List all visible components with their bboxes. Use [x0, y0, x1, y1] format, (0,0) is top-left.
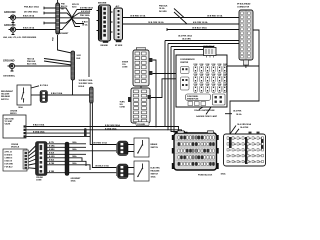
svg-text:I/P BULKHEAD: I/P BULKHEAD — [237, 3, 251, 6]
grid B top stubs — [249, 132, 260, 135]
fuse row 2 dots — [195, 77, 225, 82]
splice output labels — [80, 7, 94, 27]
svg-text:FUSE: FUSE — [223, 84, 227, 86]
connector C100 ip side — [114, 8, 123, 40]
wire SC1 to fuse block — [152, 73, 177, 75]
harness wire labels — [49, 141, 77, 173]
svg-text:18 B ORN 18 GA: 18 B ORN 18 GA — [148, 21, 164, 24]
svg-text:FUSE PANEL: FUSE PANEL — [187, 95, 199, 98]
wire PNK to splice — [44, 7, 72, 17]
fuse block relay on top — [204, 48, 217, 58]
svg-text:18GA: 18GA — [72, 162, 77, 165]
wire harness W5 — [47, 158, 82, 161]
svg-text:FUSE: FUSE — [194, 64, 198, 66]
svg-text:HORN RELAY: HORN RELAY — [203, 45, 216, 48]
svg-text:18 B BLK 18 GA: 18 B BLK 18 GA — [95, 165, 109, 168]
stoplamp switch box — [134, 138, 149, 157]
svg-text:SWITCH: SWITCH — [151, 174, 159, 176]
circuit breaker 2 — [181, 77, 190, 90]
svg-text:C5: C5 — [249, 150, 251, 152]
wire switch to connector — [31, 94, 40, 96]
wire servo B — [28, 129, 169, 131]
svg-text:F DK BLU: F DK BLU — [5, 166, 14, 168]
svg-text:B GRA 18GA: B GRA 18GA — [33, 130, 45, 133]
svg-text:FUSE: FUSE — [212, 84, 216, 86]
connector C100 engine label — [98, 2, 108, 46]
wire label C3 — [95, 165, 109, 168]
svg-text:GROUND: GROUND — [4, 23, 16, 27]
ground G104 label — [3, 59, 15, 63]
cruise servo label — [10, 111, 18, 116]
fuse row 1 dots — [195, 67, 225, 72]
harness grommet bar — [65, 142, 69, 176]
svg-text:C3: C3 — [239, 150, 241, 152]
steering column upper left labels — [122, 61, 129, 68]
wire harness W6 — [47, 161, 86, 166]
svg-text:CONN: CONN — [120, 107, 126, 109]
svg-text:4 B RED 18GA: 4 B RED 18GA — [80, 7, 94, 10]
svg-text:B5: B5 — [249, 144, 251, 146]
wire SC1 tab down — [152, 60, 156, 127]
svg-text:E DK GRN: E DK GRN — [5, 163, 14, 165]
grid B pins — [227, 137, 264, 163]
svg-text:B GRA: B GRA — [49, 145, 55, 148]
svg-text:C6: C6 — [254, 150, 256, 152]
svg-text:GAUGES FUSE 10 AMP: GAUGES FUSE 10 AMP — [196, 115, 218, 118]
grid B pin text specks — [229, 137, 261, 164]
wire DK GRN to splice — [44, 12, 72, 18]
wire splice pack D down V2a — [90, 103, 117, 145]
svg-text:18 A PNK 18GA: 18 A PNK 18GA — [178, 35, 192, 38]
svg-text:E6: E6 — [254, 162, 256, 164]
fuse row 3 labels — [194, 84, 228, 86]
wire servo A — [28, 126, 166, 128]
wire harness W8 — [47, 172, 117, 174]
svg-text:CONNECTOR: CONNECTOR — [237, 6, 250, 8]
svg-text:VAC HOSE: VAC HOSE — [5, 117, 15, 120]
svg-text:S210: S210 — [72, 6, 76, 8]
svg-text:E1: E1 — [229, 162, 231, 164]
wires module to connector fan — [29, 146, 37, 169]
electrical release switch labels — [151, 168, 161, 179]
svg-text:D1: D1 — [229, 156, 231, 158]
svg-text:RELEASE: RELEASE — [151, 170, 161, 173]
bulkhead grid connector B — [224, 134, 266, 166]
svg-text:REDUNDANT: REDUNDANT — [1, 90, 14, 93]
connector C157 — [40, 91, 48, 103]
splice S210 — [71, 10, 92, 27]
svg-text:E3: E3 — [239, 162, 241, 164]
svg-text:D6: D6 — [254, 156, 256, 158]
redundant vacuum release switch label — [1, 90, 14, 101]
svg-text:PNK BLK: PNK BLK — [159, 5, 168, 7]
svg-text:B BRN: B BRN — [49, 149, 55, 151]
cruise servo box — [3, 115, 28, 138]
svg-text:4 B SOLID: 4 B SOLID — [81, 10, 91, 13]
grid B bottom label — [221, 172, 227, 175]
svg-text:FUSE: FUSE — [200, 64, 204, 66]
wire splice pack D down V2b — [92, 103, 117, 168]
svg-text:18 A ORN 18GA: 18 A ORN 18GA — [237, 123, 252, 126]
svg-text:18 B RED 18GA: 18 B RED 18GA — [79, 82, 94, 85]
wire harness W2 — [47, 146, 86, 148]
ground G117 label — [4, 10, 16, 14]
svg-text:DK GRN 18GA: DK GRN 18GA — [24, 11, 38, 14]
ground G104 note — [3, 76, 16, 78]
svg-text:FUSE: FUSE — [218, 84, 222, 86]
svg-text:VALVE: VALVE — [5, 123, 12, 126]
svg-text:B BLK: B BLK — [82, 22, 88, 24]
svg-text:18 B BLK 18GA: 18 B BLK 18GA — [79, 79, 94, 82]
svg-text:B1: B1 — [229, 144, 231, 146]
svg-text:B BLK 18GA: B BLK 18GA — [33, 124, 45, 127]
svg-text:A/C: A/C — [116, 5, 120, 8]
ip bulkhead connector label — [237, 3, 251, 9]
grommet label — [58, 33, 70, 35]
svg-text:D7: D7 — [259, 156, 261, 158]
circuit breaker 1 — [181, 67, 190, 74]
wire servo C — [28, 132, 91, 134]
connector C100 ip bottom cap — [116, 40, 122, 42]
svg-text:B GRA 18GA: B GRA 18GA — [105, 127, 117, 130]
svg-text:ENGINE: ENGINE — [101, 45, 109, 47]
stoplamp switch labels — [151, 143, 159, 149]
fuse row 1 — [194, 66, 227, 73]
wire fuse block to loop — [227, 65, 259, 67]
svg-text:18GA: 18GA — [72, 141, 77, 144]
svg-text:B BLK: B BLK — [49, 153, 55, 155]
svg-text:SWITCH: SWITCH — [1, 99, 9, 101]
wire C3 to release switch — [128, 168, 134, 175]
bundle wire B4 — [174, 50, 205, 134]
leader wires to splice pack — [44, 59, 72, 66]
wire ground G117 to splice — [16, 17, 72, 19]
fuse block label — [180, 59, 195, 64]
svg-text:FUSE: FUSE — [218, 74, 222, 76]
wire label stack TAN — [27, 58, 37, 66]
svg-text:A PPL 18: A PPL 18 — [5, 150, 12, 153]
splice pack S231 — [71, 51, 75, 80]
wire SC2 to fuse block — [151, 79, 177, 98]
svg-text:B BLK 18GA: B BLK 18GA — [51, 92, 63, 95]
svg-text:B6: B6 — [254, 144, 256, 146]
svg-text:C2: C2 — [234, 150, 236, 152]
wire tail label PNK — [53, 37, 55, 41]
svg-text:CONN: CONN — [36, 180, 42, 182]
svg-text:BLK 18GA: BLK 18GA — [27, 63, 37, 66]
svg-text:FUSE: FUSE — [212, 74, 216, 76]
splice label — [72, 4, 80, 8]
top right leader lines — [174, 9, 187, 25]
bulkhead grid connector A — [172, 131, 219, 170]
svg-text:CIGAR LIGHTER FUSE: CIGAR LIGHTER FUSE — [194, 109, 215, 112]
steering column lower left labels — [120, 101, 126, 108]
wire label BLK — [192, 26, 207, 29]
svg-text:D BLK 18: D BLK 18 — [5, 160, 13, 162]
svg-text:ELECTRIC: ELECTRIC — [151, 168, 161, 170]
svg-text:SWITCH: SWITCH — [151, 147, 159, 149]
wire harness W1 — [47, 143, 86, 145]
vrs leader label — [40, 85, 49, 87]
bundle labels — [178, 35, 192, 41]
svg-text:FUSE: FUSE — [194, 84, 198, 86]
loop wire labels — [233, 109, 242, 115]
svg-text:D5: D5 — [249, 156, 251, 158]
svg-text:B LT BLU: B LT BLU — [40, 85, 49, 87]
top right label stack — [159, 5, 168, 13]
wire ground G104 to splice pack — [15, 65, 73, 67]
wire label stack top — [61, 4, 67, 11]
svg-text:E5: E5 — [249, 162, 251, 164]
svg-text:S231: S231 — [77, 55, 81, 57]
cruise control module — [3, 149, 29, 171]
splice pack D — [90, 87, 94, 103]
wire label RED mid — [130, 15, 223, 18]
fuse pointer leaders — [199, 107, 211, 114]
fuse row 3 — [194, 86, 227, 93]
wire label PNK-BLK — [24, 6, 39, 9]
steering column connector upper label — [136, 48, 142, 50]
connector C205 — [36, 142, 48, 176]
relay label — [203, 45, 216, 48]
svg-text:TAN GA: TAN GA — [27, 58, 35, 61]
fuse block pointer label 1 — [194, 109, 215, 112]
svg-text:FUSE: FUSE — [200, 84, 204, 86]
wire harness W4 — [47, 153, 86, 155]
wire C100 to bulkhead ORN — [123, 23, 240, 25]
svg-text:COLUMN: COLUMN — [137, 124, 146, 126]
svg-text:GM DIESEL: GM DIESEL — [3, 76, 16, 78]
svg-text:PNK-BLK 18GA: PNK-BLK 18GA — [24, 6, 39, 9]
fuse row 2 — [194, 76, 227, 83]
svg-text:B2: B2 — [234, 144, 236, 146]
grid B top labels — [237, 123, 252, 129]
connector C100 engine bottom cap — [103, 41, 108, 43]
wire label C2 — [93, 142, 107, 145]
svg-text:B7: B7 — [259, 144, 261, 146]
svg-text:B TAN: B TAN — [49, 170, 55, 173]
svg-text:MODULE: MODULE — [11, 147, 20, 149]
svg-text:E7: E7 — [259, 162, 261, 164]
svg-text:RELEASE: RELEASE — [1, 95, 11, 98]
svg-text:I/P SIDE: I/P SIDE — [115, 45, 123, 47]
svg-text:B3: B3 — [239, 144, 241, 146]
svg-text:18 A ORN: 18 A ORN — [182, 38, 191, 41]
svg-text:FUSE: FUSE — [212, 64, 216, 66]
svg-text:B BLK 18 GA: B BLK 18 GA — [23, 26, 35, 29]
svg-text:18GA: 18GA — [18, 106, 23, 109]
svg-text:VACUUM: VACUUM — [1, 93, 10, 96]
grid A label — [198, 175, 213, 177]
svg-text:18 B RED 18 GA: 18 B RED 18 GA — [93, 142, 107, 145]
wire label DK GRN — [24, 11, 38, 14]
wire C100 to bulkhead RED — [123, 17, 240, 19]
svg-text:CONVENIENCE: CONVENIENCE — [180, 59, 195, 61]
svg-text:B BLK 18 GA: B BLK 18 GA — [23, 14, 35, 17]
svg-text:C7: C7 — [259, 150, 261, 152]
wire C2 to stop switch — [128, 145, 134, 152]
bundle wire B1 — [165, 41, 252, 134]
wire splice pack down — [72, 80, 74, 95]
cruise module label — [11, 144, 20, 149]
fuse block pointer label 2 — [196, 115, 218, 118]
svg-text:18 GA: 18 GA — [82, 23, 88, 26]
ground G103 symbol — [9, 27, 16, 35]
svg-text:18 B RED 18 GA: 18 B RED 18 GA — [130, 15, 146, 18]
svg-text:SPARE FUSE: SPARE FUSE — [187, 98, 199, 101]
bundle wire B2 — [168, 44, 248, 134]
svg-text:B GRN: B GRN — [49, 156, 55, 158]
wire ground G103 to splice — [16, 19, 72, 30]
fuse row 2 labels — [194, 74, 228, 76]
svg-text:18GA: 18GA — [72, 148, 77, 151]
svg-text:FUSE: FUSE — [194, 74, 198, 76]
svg-text:FUSE: FUSE — [218, 64, 222, 66]
wire label B BLK — [51, 92, 63, 95]
fuse block outline — [176, 55, 227, 107]
vrs leader line — [31, 86, 39, 88]
wire grommet tail — [58, 35, 72, 53]
engine note text — [3, 36, 37, 39]
svg-text:DK GRN: DK GRN — [159, 11, 167, 13]
svg-text:18 GA: 18 GA — [159, 7, 165, 10]
engine harness grommet — [56, 3, 60, 34]
wire BLK to bulkhead — [167, 28, 239, 31]
svg-text:D3: D3 — [239, 156, 241, 158]
wire harness W3 — [47, 150, 117, 152]
svg-text:E2: E2 — [234, 162, 236, 164]
svg-text:CENTER: CENTER — [180, 62, 189, 64]
wire SC1 SC2 link — [140, 86, 142, 88]
grid A pins — [178, 136, 215, 166]
svg-text:18GA: 18GA — [72, 155, 77, 158]
ground G117 symbol — [9, 15, 16, 24]
svg-text:FUSE: FUSE — [206, 84, 210, 86]
connector C205 label — [36, 177, 44, 181]
harness grommet label — [71, 178, 82, 183]
vrs box bottom label — [18, 106, 23, 109]
wire bar top stub — [57, 0, 59, 3]
svg-text:18 A PNK: 18 A PNK — [240, 126, 249, 129]
svg-text:GROUND: GROUND — [4, 10, 16, 14]
svg-text:18 B BLK 18GA: 18 B BLK 18GA — [192, 26, 207, 29]
grid B label leaders — [230, 126, 239, 135]
connector C100 engine side — [97, 5, 113, 41]
wire splice vertical V1 — [88, 18, 90, 77]
svg-text:C BRN 18: C BRN 18 — [5, 157, 13, 159]
wire connector to splice pack D — [48, 94, 90, 96]
svg-text:PNK 18GA: PNK 18GA — [80, 14, 90, 17]
svg-text:CONN: CONN — [122, 67, 128, 69]
svg-text:4 B ORN 18 GA: 4 B ORN 18 GA — [193, 21, 208, 24]
svg-text:18 B RED 18 GA: 18 B RED 18 GA — [207, 15, 223, 18]
wire label ORN mid — [148, 21, 208, 24]
svg-text:B PNK: B PNK — [49, 163, 55, 165]
connector C100 ip label — [115, 5, 123, 47]
svg-text:GROUND: GROUND — [3, 59, 15, 63]
splice blob servo wires — [84, 128, 87, 137]
wire label ground G117 — [23, 14, 35, 17]
svg-text:B BLK: B BLK — [79, 86, 85, 88]
electrical release switch box — [134, 161, 149, 181]
wire servo D — [28, 135, 91, 137]
splice pack label — [77, 55, 82, 60]
svg-text:FUSE: FUSE — [223, 64, 227, 66]
fuse block bottom strip — [186, 94, 211, 101]
svg-text:18GA: 18GA — [151, 176, 157, 179]
svg-text:ENGINE: ENGINE — [98, 2, 107, 4]
steering column lower tab — [136, 122, 149, 126]
svg-text:18 A PNK: 18 A PNK — [233, 109, 242, 112]
ground G103 label — [4, 23, 16, 27]
bundle wire B3 — [171, 47, 214, 134]
connector C3 clutch — [116, 164, 128, 179]
ground G104 symbol — [8, 63, 15, 71]
svg-text:B BLU: B BLU — [49, 160, 55, 162]
svg-text:D2: D2 — [234, 156, 236, 158]
svg-text:C1: C1 — [229, 150, 231, 152]
wire harness W7 — [47, 165, 90, 170]
svg-text:FUSE BLOCK: FUSE BLOCK — [198, 175, 213, 177]
svg-text:B DK GRN 18GA: B DK GRN 18GA — [105, 124, 120, 127]
wire label ground G103 — [23, 26, 35, 29]
steering column connector lower — [128, 88, 151, 123]
wire BRN to splice — [44, 19, 72, 25]
steering column connector upper — [133, 48, 152, 87]
svg-text:FUSE: FUSE — [200, 74, 204, 76]
redundant vacuum release switch — [17, 85, 31, 105]
svg-text:LB4, LH6, LT9, 4.3L CMFI ENGIN: LB4, LH6, LT9, 4.3L CMFI ENGINES — [3, 36, 37, 39]
svg-text:GROMMET: GROMMET — [58, 33, 70, 35]
svg-text:BRAKE: BRAKE — [151, 143, 158, 146]
svg-text:BLK: BLK — [77, 58, 82, 60]
svg-text:B PPL: B PPL — [49, 142, 54, 144]
grid A row separators — [176, 140, 216, 160]
connector C2 stoplamp — [116, 141, 128, 156]
fuse row 3 dots — [195, 87, 225, 92]
wire ip connector loop — [230, 30, 259, 134]
svg-text:FUSE: FUSE — [223, 74, 227, 76]
servo wire labels — [33, 124, 120, 134]
svg-text:18 GA: 18 GA — [236, 113, 242, 116]
wire label plug — [225, 113, 232, 115]
svg-text:18GA: 18GA — [71, 179, 77, 182]
ip connector stem — [244, 60, 249, 68]
svg-text:FUSE: FUSE — [206, 74, 210, 76]
wire label block V1 — [79, 79, 94, 88]
svg-text:18GA: 18GA — [221, 172, 227, 175]
fuse block aux block — [213, 94, 226, 105]
svg-text:B GRA 18: B GRA 18 — [5, 153, 13, 156]
svg-text:FUSE: FUSE — [206, 64, 210, 66]
fuse block lower squares — [188, 102, 206, 106]
ip bulkhead connector — [239, 10, 253, 60]
fuse row 1 labels — [194, 64, 228, 66]
